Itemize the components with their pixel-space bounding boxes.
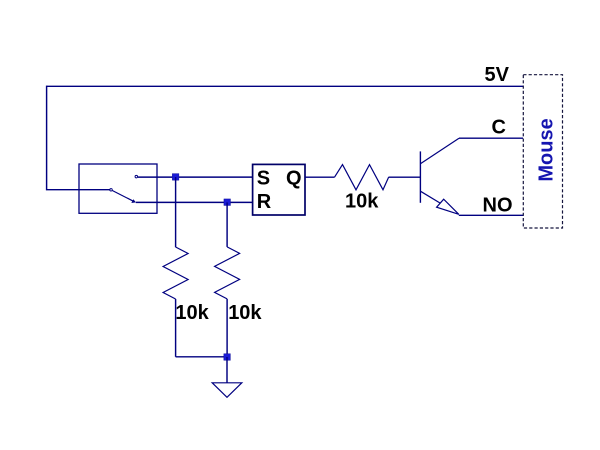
svg-text:R: R xyxy=(257,191,272,213)
wire R3 bottom xyxy=(226,299,228,357)
wire 5V top rail xyxy=(47,85,523,87)
transistor Q1 emitter xyxy=(420,191,440,203)
switch lever xyxy=(112,191,134,202)
junction node at S wire xyxy=(172,174,179,181)
switch common contact xyxy=(110,189,113,192)
wire bottom joining resistors xyxy=(176,356,228,358)
wire upper contact to S xyxy=(138,176,253,178)
wire junction2 down xyxy=(226,202,228,247)
transistor Q1 emitter arrow xyxy=(437,199,459,214)
latch U1 SR box xyxy=(253,164,305,215)
svg-text:5V: 5V xyxy=(485,64,510,86)
wire resistor to base xyxy=(389,176,421,178)
wire collector to C xyxy=(459,137,523,139)
svg-text:C: C xyxy=(492,117,506,139)
wire Q output xyxy=(305,176,335,178)
wire ground stem xyxy=(226,357,228,383)
wire left drop to switch common xyxy=(47,86,111,190)
svg-text:Q: Q xyxy=(286,168,302,190)
connector J1 Mouse dashed box xyxy=(523,75,562,228)
wire junction1 down xyxy=(175,177,177,247)
svg-text:10k: 10k xyxy=(175,302,209,324)
svg-text:10k: 10k xyxy=(228,302,262,324)
resistor R3 10k vertical right xyxy=(215,247,240,299)
svg-text:10k: 10k xyxy=(345,191,379,213)
wire emitter to NO xyxy=(459,214,524,216)
wire R2 bottom xyxy=(175,299,177,357)
transistor Q1 base bar xyxy=(419,151,421,202)
junction node at R wire xyxy=(224,199,231,206)
transistor Q1 collector xyxy=(420,138,459,164)
resistor R1 10k horizontal xyxy=(335,165,389,190)
svg-text:NO: NO xyxy=(483,195,513,217)
junction node at ground wire xyxy=(224,354,231,361)
svg-text:S: S xyxy=(257,168,270,190)
ground xyxy=(212,383,242,398)
wire lower contact to R xyxy=(136,201,253,203)
switch upper contact xyxy=(135,175,138,178)
svg-text:Mouse: Mouse xyxy=(535,118,557,181)
resistor R2 10k vertical left xyxy=(163,247,188,299)
switch S1 box xyxy=(79,164,157,213)
